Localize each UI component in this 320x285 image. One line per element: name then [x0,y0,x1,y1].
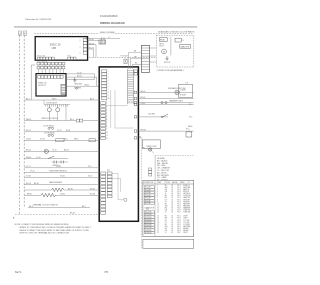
svg-text:P1-6: P1-6 [177,195,180,197]
connector P14 hatched [99,40,106,44]
bake element coil [52,188,64,192]
wire sensor return row [24,171,99,173]
svg-text:5: 5 [80,52,81,54]
convection fan assembly dashed enclosure [156,35,194,67]
svg-text:19: 19 [157,224,159,226]
svg-text:3: 3 [80,46,81,48]
svg-text:P3-2: P3-2 [177,218,180,220]
fan relay text [159,44,164,48]
svg-text:BK-40: BK-40 [68,188,73,190]
svg-text:MOTOR: MOTOR [164,62,171,64]
header model number [100,14,118,18]
svg-text:RD-11: RD-11 [26,130,31,132]
svg-text:TCO SW: TCO SW [183,222,190,224]
svg-text:L1 TERM: L1 TERM [183,224,190,226]
svg-text:DOOR SW NC: DOOR SW NC [44,133,55,135]
svg-text:BU: BU [165,216,167,218]
svg-text:23: 23 [157,232,159,234]
svg-text:GY-3: GY-3 [88,176,92,178]
svg-text:16: 16 [171,226,173,228]
chassis ground symbol [73,77,76,82]
svg-text:18: 18 [171,228,173,230]
svg-text:18: 18 [171,220,173,222]
svg-text:P3-1: P3-1 [177,216,180,218]
svg-text:SURF SW: SURF SW [183,212,191,214]
svg-text:P4 1 2 3 4 5 6: P4 1 2 3 4 5 6 [37,61,47,63]
fan connector strip J5 [142,45,150,72]
svg-text:YL: YL [165,212,167,214]
svg-text:BN: BN [165,218,167,220]
notes strip box [143,239,194,248]
svg-text:10: 10 [157,203,159,205]
svg-text:P14 CN7: P14 CN7 [121,56,128,58]
svg-text:BK-63: BK-63 [188,126,193,128]
svg-text:DLB SW: DLB SW [148,113,155,115]
svg-text:LIGHT: LIGHT [183,218,188,220]
svg-text:16: 16 [171,203,173,205]
wire bake element row [24,188,99,190]
svg-text:BK: BK [134,51,136,53]
svg-text:11: 11 [106,135,108,137]
svg-text:BK-60: BK-60 [141,91,146,93]
svg-text:P2-2: P2-2 [177,205,180,207]
wire supply to relay 1 [66,72,94,74]
svg-text:GY-26: GY-26 [60,176,65,178]
svg-text:18: 18 [171,201,173,203]
wire supply P2 to relay board [66,85,99,87]
svg-text:Publication No. 5995599739: Publication No. 5995599739 [25,18,52,21]
svg-text:YL-20: YL-20 [77,72,82,74]
wires relay channel to fan strip [129,51,142,69]
svg-text:18: 18 [171,187,173,189]
svg-text:21: 21 [157,228,159,230]
wire warmer row [139,97,194,99]
svg-text:16: 16 [157,218,159,220]
svg-text:SUPPLY CORD OR TERMINAL BLOCK: SUPPLY CORD OR TERMINAL BLOCK CONNECTION [19,232,69,235]
relay connector K1 column [101,172,106,214]
svg-text:DOOR SW NO: DOOR SW NO [43,125,54,127]
svg-text:BK-51: BK-51 [159,46,163,48]
relay pin numbers J1 [108,71,110,100]
thermal cutout label [33,204,59,207]
console note asterisk [13,216,15,221]
header title WIRING DIAGRAM [100,21,125,25]
svg-text:HIGH VOLTAGE: HIGH VOLTAGE [100,31,115,34]
note text block [15,224,92,235]
relay board ESEC 30 [99,67,138,221]
svg-text:18: 18 [171,193,173,195]
svg-text:BK-1: BK-1 [26,98,30,100]
connector row P5 [37,66,65,69]
relay internal wire 1 [106,90,108,128]
relay pin numbers J2 [106,103,108,140]
svg-text:BAKE ELEMENT: BAKE ELEMENT [49,181,62,184]
relay connector J2 strip [101,102,106,140]
wires fan strip to fan box [149,48,156,62]
wire long right row [139,129,194,132]
svg-text:P8: P8 [143,147,145,149]
wire broil element row [24,194,99,196]
svg-text:CONNECTOR: CONNECTOR [144,207,155,209]
svg-text:RD-32: RD-32 [89,48,94,50]
svg-text:P1-2: P1-2 [177,187,180,189]
svg-text:BK-5: BK-5 [64,139,68,141]
svg-text:12: 12 [106,138,108,140]
svg-text:WH: WH [165,205,168,207]
svg-text:BK-2: BK-2 [90,98,94,100]
svg-text:P4-5: P4-5 [177,232,180,234]
svg-text:GY: GY [165,220,167,222]
door switch contacts [43,125,54,129]
svg-text:18: 18 [171,218,173,220]
svg-text:CONNECTOR: CONNECTOR [144,182,155,184]
svg-text:WIRE: WIRE [157,182,161,184]
svg-text:P12-9 RD: P12-9 RD [145,232,153,234]
svg-text:18: 18 [171,232,173,234]
svg-text:OVEN LIGHT: OVEN LIGHT [146,146,158,148]
relay connector J1 strip [102,70,107,100]
svg-text:15: 15 [157,216,159,218]
connector P2 supply board right [61,84,66,94]
console top dashed boundary [34,32,193,34]
svg-text:RD-8: RD-8 [66,130,70,132]
svg-text:18: 18 [157,222,159,224]
console boundary label [158,31,195,34]
thermostat contacts [52,161,69,168]
relay internal wire 4 [112,173,124,199]
footer page number [104,270,108,274]
connector latch row [77,119,100,122]
wire thermal switch row [24,157,68,159]
relay aux connector [134,70,137,75]
svg-text:P1-3: P1-3 [177,189,180,191]
wire UIB P7-5 [88,48,94,58]
fan terminal box [175,38,184,42]
L1 supply post [18,31,22,36]
legend top dashed line [155,155,194,157]
svg-text:FROM: FROM [180,182,185,184]
svg-text:16: 16 [171,224,173,226]
wire thermal cutout row [28,206,90,208]
svg-text:P2-3: P2-3 [177,207,180,209]
wire bake row [24,181,99,185]
svg-text:BK: BK [165,185,167,187]
svg-text:BK-30: BK-30 [34,183,39,185]
svg-text:P4-4: P4-4 [177,230,180,232]
svg-text:P1-9: P1-9 [177,201,180,203]
svg-text:SURF SW: SURF SW [183,210,191,212]
console divider dashed line [89,56,156,58]
svg-text:GROUND: GROUND [74,83,83,85]
svg-text:THERMAL CUTOUT SWITCH: THERMAL CUTOUT SWITCH [33,204,59,207]
svg-text:WH: WH [165,226,168,228]
svg-text:P2-4: P2-4 [177,210,180,212]
chart connector group P1 [144,186,154,205]
svg-text:18: 18 [171,222,173,224]
svg-text:BROIL E: BROIL E [183,191,189,193]
svg-text:VT: VT [165,201,167,203]
svg-text:P1-1: P1-1 [177,185,180,187]
door lock switch [161,114,168,118]
wire door lock row [139,113,168,117]
svg-text:P3-4: P3-4 [177,222,180,224]
svg-text:OVEN DOOR LATCH: OVEN DOOR LATCH [41,117,58,120]
connector P2 on UIB bottom edge [68,56,76,60]
svg-text:BU-36: BU-36 [90,194,95,196]
fan ground symbol [165,56,168,60]
fan relay box [159,38,167,42]
svg-text:SURF-L1: SURF-L1 [183,185,189,187]
wire oven light to legend rail [152,151,154,153]
svg-text:18: 18 [171,185,173,187]
svg-text:SENSOR: SENSOR [183,199,190,201]
thermal switch [48,156,54,158]
svg-text:YL-15: YL-15 [52,150,57,152]
svg-text:VT-25: VT-25 [30,171,35,173]
svg-text:BU-21: BU-21 [77,76,82,78]
svg-text:YL-16: YL-16 [36,157,41,159]
wire serial bus [86,37,120,40]
wire main harness top [24,98,99,100]
svg-text:GY-12: GY-12 [57,130,62,132]
svg-text:BROIL: BROIL [27,194,32,196]
svg-text:P1-8: P1-8 [177,199,180,201]
wire UIB left column down [31,65,35,100]
svg-text:11: 11 [157,205,159,207]
svg-text:DOOR SW: DOOR SW [183,195,191,197]
svg-text:OR-13: OR-13 [26,139,31,141]
svg-text:YL: YL [165,193,167,195]
rail label 3 [188,126,193,128]
svg-text:WH-33: WH-33 [89,43,94,45]
svg-text:22: 22 [157,230,159,232]
svg-text:RD-61: RD-61 [141,97,146,99]
svg-text:VT: VT [165,222,167,224]
svg-text:GY-18: GY-18 [26,176,31,178]
rail label 2 [189,117,192,119]
door switch contacts lower [44,130,61,137]
fan motor [162,49,167,54]
svg-text:WH-4: WH-4 [52,98,56,100]
svg-text:BK: BK [165,203,167,205]
svg-text:WH-5: WH-5 [74,139,78,141]
svg-text:RD-31: RD-31 [90,188,95,190]
svg-text:10: 10 [108,98,110,100]
svg-text:GUARDIAN CONSOLE & DOOR PARTS: GUARDIAN CONSOLE & DOOR PARTS [158,31,195,34]
svg-text:P12: P12 [146,209,149,211]
svg-text:1: 1 [80,40,81,42]
svg-text:GY-35: GY-35 [89,39,94,41]
low voltage supply board [36,74,66,96]
svg-text:UIB: UIB [52,46,57,50]
connector P1 inside supply board top [38,75,63,78]
wires P5 to supply board [39,69,64,74]
svg-text:L1: L1 [182,40,184,42]
broil element coil [41,193,56,197]
convection fan caption [157,69,185,72]
svg-text:18: 18 [171,212,173,214]
connector P3 on UIB bottom edge [37,56,54,60]
fan wire vertical [170,37,172,56]
wire supply to relay 3 [66,74,94,80]
oven light box [142,140,160,149]
svg-text:WH: WH [165,187,168,189]
svg-text:WH-16: WH-16 [26,157,31,159]
wire lock switch row [24,139,99,141]
svg-text:18: 18 [171,199,173,201]
svg-text:18: 18 [171,216,173,218]
relay pilot lamp [124,198,127,201]
relay output connector cells [134,91,137,139]
connector P8 stack [149,168,152,176]
wire warmer return [139,102,194,104]
wire surface unit right [139,91,194,93]
N rail wire [23,35,25,207]
console label high voltage [99,31,115,34]
svg-text:OVEN TEMP SENSOR: OVEN TEMP SENSOR [49,171,67,173]
svg-text:SCREW: SCREW [74,88,81,90]
wire UIB P7-3 [88,43,96,57]
svg-text:M: M [163,52,165,54]
lock switch component [56,139,95,142]
rail label 1 [189,104,192,106]
relay connector J3 channel [128,69,134,104]
right small box lower [186,132,192,137]
chart connector group P12 [144,211,154,235]
relay internal wire 2 [110,90,112,128]
svg-text:OR-22: OR-22 [84,85,89,87]
wire color legend [157,158,170,182]
door latch motor assembly [44,100,70,121]
svg-text:20: 20 [157,226,159,228]
svg-text:P4-1: P4-1 [177,224,180,226]
svg-text:CONVECTION FAN ASSEMBLY: CONVECTION FAN ASSEMBLY [157,69,185,72]
svg-text:WIRING DIAGRAM: WIRING DIAGRAM [100,21,125,25]
op board ESEC 30 UIB [35,37,87,61]
wire latch row [24,117,76,121]
svg-text:P1-5: P1-5 [177,193,180,195]
fan motor caption [164,62,171,64]
svg-text:R 900W: R 900W [180,95,186,97]
svg-text:18: 18 [171,210,173,212]
console lamp [44,149,48,153]
svg-text:WH-50: WH-50 [159,44,164,46]
surface unit box [179,82,193,97]
wire chart rows [157,185,191,234]
svg-text:BU: BU [165,195,167,197]
wire door switch row [24,130,99,132]
wire sensor row [24,166,99,168]
svg-text:NOTE: CONNECT GROUNDING WIRE W: NOTE: CONNECT GROUNDING WIRE W/ GREEN SC… [15,224,69,226]
svg-text:BK-7: BK-7 [82,206,86,208]
warmer label [169,99,183,102]
svg-text:BK-9: BK-9 [70,119,74,121]
svg-text:*: * [13,216,15,221]
svg-text:7/5: 7/5 [104,270,108,274]
legend left border [154,156,156,181]
svg-text:SENSOR: SENSOR [183,201,190,203]
oven area dashed boundary [140,139,142,248]
wires P4 to P5 [39,65,64,66]
svg-text:NEVER CONNECT GROUND WIRE TO N: NEVER CONNECT GROUND WIRE TO NEUTRAL WIR… [19,229,89,232]
fan capacitor box [180,45,191,49]
svg-text:13: 13 [157,210,159,212]
surface unit receptacle [175,90,180,95]
L1 rail wire [19,35,21,215]
svg-text:18: 18 [171,207,173,209]
wire chart header [144,181,191,184]
svg-text:COLOR: COLOR [165,182,171,184]
wire chart table frame [143,180,194,236]
svg-text:UIB P7: UIB P7 [183,232,188,234]
N supply post [24,31,27,36]
surface unit label [168,87,186,90]
footer sheet code [15,270,22,274]
wire id labels [30,98,95,195]
svg-text:WARMER UNIT: WARMER UNIT [169,99,183,102]
svg-text:18: 18 [171,197,173,199]
svg-text:SUPPLY: SUPPLY [38,85,46,87]
svg-text:GY-13: GY-13 [40,139,45,141]
svg-text:P2-1: P2-1 [177,203,180,205]
console bottom dashed boundary [15,213,99,215]
svg-text:P2-5: P2-5 [177,212,180,214]
svg-text:WIRES TO OVEN MUST BE 4 CONDUC: WIRES TO OVEN MUST BE 4 CONDUCTOR AND RA… [19,226,91,229]
svg-text:P9: P9 [139,136,141,138]
svg-text:P4-2: P4-2 [177,226,180,228]
relay internal wire 3 [107,90,134,128]
svg-text:FGGS3045KF: FGGS3045KF [100,14,118,18]
svg-text:BK: BK [165,224,167,226]
svg-text:LIGHT: LIGHT [183,216,188,218]
wire supply to relay 2 [66,76,96,87]
wire relay to oven light [139,136,143,138]
svg-text:P1-7: P1-7 [177,197,180,199]
header publication number [25,18,52,21]
wire oven lamp row [24,150,99,152]
svg-text:6a7s: 6a7s [15,270,22,274]
svg-text:WH: WH [134,57,137,59]
svg-text:YL: YL [165,232,167,234]
svg-text:DOOR LATCH: DOOR LATCH [46,102,58,105]
svg-text:OR-41: OR-41 [60,194,65,196]
svg-text:OR-23: OR-23 [56,166,61,168]
svg-text:P1-2: P1-2 [189,104,192,106]
svg-text:P1-4: P1-4 [177,191,180,193]
ground screw [76,87,78,89]
svg-text:BK-6: BK-6 [29,206,33,208]
svg-text:P1-4: P1-4 [189,117,192,119]
svg-text:18: 18 [171,195,173,197]
svg-text:P7-2: P7-2 [186,129,189,131]
svg-text:GY: GY [165,199,167,201]
relay internal wire 5 [112,178,121,192]
svg-text:VT-17: VT-17 [26,166,31,168]
svg-text:17: 17 [157,220,159,222]
svg-text:BN: BN [165,197,167,199]
svg-text:18: 18 [171,230,173,232]
svg-text:BN-14: BN-14 [26,150,31,152]
chart group label P12 [144,207,155,211]
relay P12 label [107,170,110,172]
svg-text:BK-64: BK-64 [70,213,75,215]
svg-text:P3-3: P3-3 [177,220,180,222]
ground screw label [74,83,83,89]
svg-text:WH-10: WH-10 [26,119,31,121]
warmer switch [161,102,167,104]
wire UIB P7-1 to P14 [88,39,99,41]
connector row P4 below UIB [37,61,65,65]
